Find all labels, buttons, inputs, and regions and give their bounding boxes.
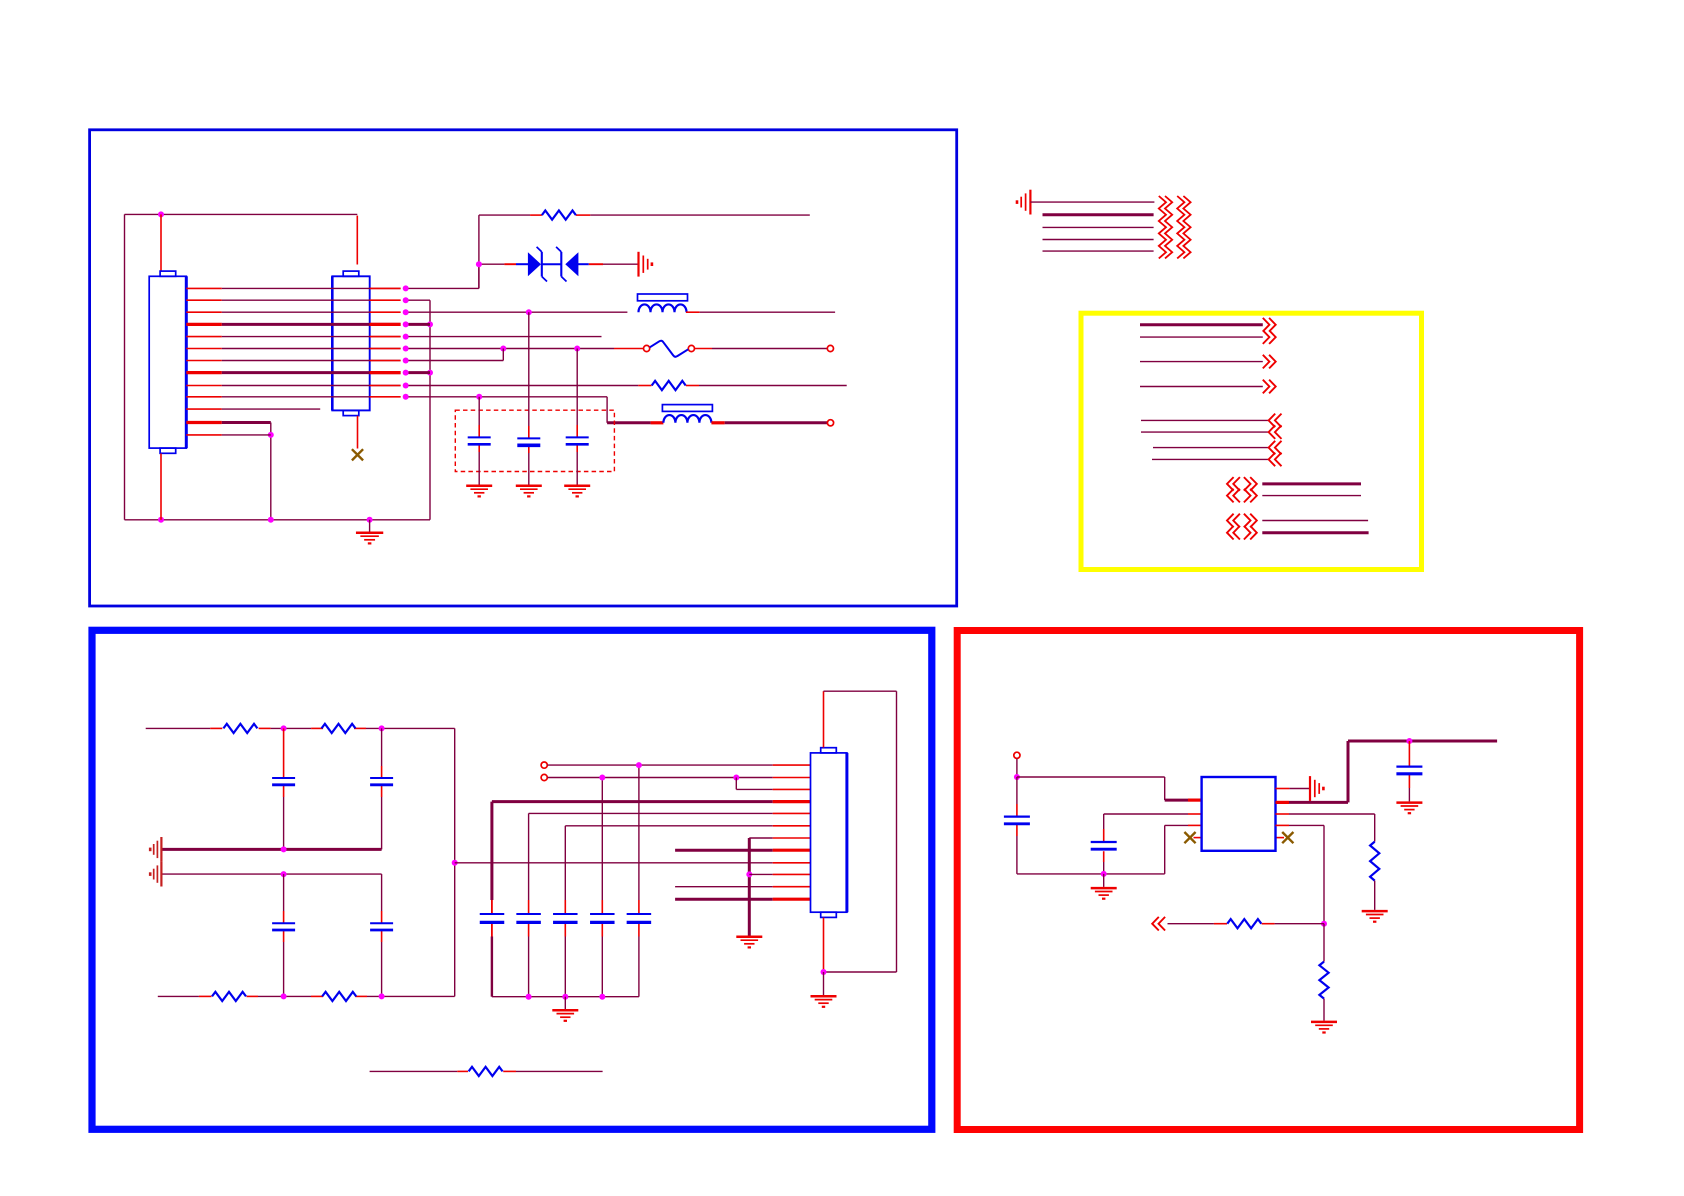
junction VOUT cap	[1406, 738, 1412, 744]
junction on top rail at connector J1	[158, 211, 164, 217]
ground at drop	[736, 937, 762, 948]
capacitor C9 lead	[528, 813, 530, 996]
wire row pin4 from J1	[186, 321, 408, 327]
resistor R8 (vertical)	[1370, 842, 1379, 881]
net D2	[1141, 425, 1282, 439]
wire VIN to U1	[1017, 777, 1202, 800]
wire row pin13 from J1	[186, 434, 222, 436]
ground R8	[1362, 881, 1388, 922]
capacitor C9	[516, 914, 541, 922]
capacitor C15 lead	[1408, 741, 1410, 801]
capacitor C3	[566, 437, 589, 444]
junction rail-J1pin	[158, 517, 164, 523]
junction pin2 branch	[733, 775, 739, 781]
wire J2 top pin to top rail	[356, 216, 358, 265]
capacitor C2 lead	[528, 312, 530, 484]
wire row10 to cap bank and bead FB2	[409, 397, 608, 423]
capacitor C10 lead	[564, 826, 566, 997]
resistor R1 row wire	[479, 215, 810, 288]
wire row12 thick to ground drop	[222, 423, 271, 520]
wire row11 open end	[222, 408, 320, 410]
wire row13 to drop	[222, 434, 271, 436]
capacitor C13	[1004, 817, 1030, 824]
junction bottom node2	[379, 993, 385, 999]
junction row13 on drop	[268, 432, 274, 438]
capacitor C12	[627, 914, 652, 922]
terminal circle bead row	[827, 420, 833, 426]
terminal circle row6	[827, 345, 833, 351]
wire after FB2	[711, 421, 827, 424]
net wire N3	[1043, 226, 1154, 228]
ground at C1	[466, 486, 492, 497]
bus rip chevrons (vertical)	[1159, 196, 1191, 258]
terminal circle VIN	[1014, 752, 1020, 758]
junction row10 cap C1 tap	[476, 394, 482, 400]
wire decoupling bus thick	[492, 800, 811, 803]
junction top node1	[281, 725, 287, 731]
sheet border box 2 (blue thick)	[92, 630, 932, 1129]
junction mid line2	[281, 871, 287, 877]
wire U1 fb pin	[1276, 825, 1325, 923]
wire row pin9 from J1	[186, 383, 408, 389]
wire mid to connector pin9	[455, 862, 811, 864]
junction top node2	[379, 725, 385, 731]
junction row6-row7 tie	[500, 346, 506, 352]
wire row pin8 from J1	[186, 370, 408, 376]
wire pin2 row	[541, 774, 810, 780]
connector J1 (14-pin)	[149, 271, 186, 453]
wire row6 after fuse	[695, 348, 827, 350]
ground GND rail	[356, 517, 383, 544]
ground (fading) mid bus	[150, 837, 161, 862]
junction TVS node	[476, 261, 482, 267]
resistor R10 (vertical)	[1319, 962, 1328, 999]
wire CN2 bottom pin	[823, 918, 825, 972]
sheet border box 3 (yellow, net connectors)	[1081, 313, 1422, 569]
capacitor C5 lead	[381, 728, 383, 849]
junction row6 cap drop	[574, 346, 580, 352]
junction row4 on ground drop	[427, 321, 433, 327]
junction VIN	[1014, 774, 1020, 780]
junction bank1	[526, 994, 532, 1000]
capacitor C8 lead thick	[490, 802, 493, 997]
wire row pin12 from J1	[186, 421, 222, 424]
capacitor C12 lead	[638, 765, 640, 997]
net B	[1140, 355, 1276, 369]
wire VIN down	[1016, 759, 1018, 777]
wire pin12 row thick	[675, 898, 810, 901]
connector CN2	[811, 748, 847, 918]
resistor R2	[652, 381, 686, 390]
junction row8 on ground drop	[427, 370, 433, 376]
wire pin11 row	[675, 886, 810, 888]
capacitor C3 lead	[576, 349, 578, 485]
wire input top	[146, 727, 455, 729]
wire C14 to U1	[1104, 813, 1202, 815]
junction C14 gnd	[1101, 871, 1107, 877]
wire row pin6 from J1	[186, 346, 408, 352]
net C	[1140, 380, 1276, 394]
wire pin3 branch	[736, 778, 810, 790]
wire right loop vertical	[454, 728, 456, 996]
net F2 (bus in)	[1227, 526, 1369, 540]
junction bottom node1	[281, 993, 287, 999]
wire row pin1 from J1	[186, 285, 408, 291]
connector J2 (pass-through header)	[332, 271, 369, 416]
wire pin1 row	[541, 762, 810, 768]
ground (fading) at TVS	[639, 252, 652, 277]
ground C14	[1091, 874, 1117, 899]
resistor R9	[1227, 919, 1261, 928]
capacitor C10	[553, 914, 578, 922]
resistor R6	[322, 992, 356, 1001]
net E2	[1227, 489, 1361, 503]
ground C15	[1396, 803, 1422, 814]
wire row pin5 from J1	[186, 334, 408, 340]
net E1 (bus in)	[1227, 477, 1361, 491]
wire row pin11 from J1	[186, 408, 222, 410]
wire C9 to pin5	[529, 812, 811, 814]
wire row pin2 from J1	[186, 297, 408, 303]
net D3	[1153, 441, 1282, 455]
wire CN2 top loop	[824, 691, 897, 972]
wire pin8 row thick	[675, 849, 810, 852]
wire row2 down to ground rail	[409, 300, 431, 520]
wire C10 to pin6	[565, 825, 810, 827]
wire gnd drop thick	[748, 838, 751, 936]
no-connect X left	[1184, 832, 1201, 843]
wire U1 adj out	[1276, 814, 1375, 842]
wire U1 gnd pin	[1276, 788, 1310, 790]
capacitor C5	[370, 778, 393, 785]
wire J1 pin1 to top rail	[160, 214, 162, 270]
wire bottom row	[158, 995, 455, 997]
wire row pin3 from J1	[186, 309, 408, 315]
sheet border box 1 (interface schematic)	[90, 130, 957, 606]
diode D1 (zener, right)	[528, 247, 547, 282]
capacitor C4	[272, 778, 295, 785]
wire R7 row	[370, 1070, 603, 1072]
ferrite bead FB1	[638, 294, 688, 312]
junction mid bus	[281, 846, 287, 852]
wire row1 net to TVS node	[409, 264, 479, 288]
ground cap bank	[552, 997, 578, 1021]
junction mid tap	[452, 860, 458, 866]
junction row3 cap drop	[526, 309, 532, 315]
capacitor C15	[1396, 767, 1422, 774]
wire mid bus thick	[162, 848, 382, 851]
capacitor C4 lead	[283, 728, 285, 849]
wire row6 to fuse F1	[409, 348, 644, 350]
capacitor C1	[468, 437, 491, 444]
diode D2 (zener, left)	[556, 247, 578, 282]
ground at C2	[516, 486, 542, 497]
wire row8 thick stub end	[409, 371, 431, 374]
wire mid line2	[162, 873, 382, 875]
wire fb down	[1323, 924, 1325, 962]
wire cap bank bottom	[492, 996, 639, 998]
capacitor C14	[1091, 842, 1117, 849]
no-connect X right	[1276, 832, 1294, 843]
junction pin10 tap	[746, 871, 752, 877]
wire row9 to resistor R2	[409, 385, 652, 387]
no-connect X at J2	[352, 449, 363, 460]
net wire N2 (bus)	[1043, 213, 1154, 216]
sheet border box 4 (red thick, regulator)	[957, 631, 1579, 1130]
capacitor C6	[272, 923, 295, 930]
junction rail-row12	[268, 517, 274, 523]
wire row pin7 from J1	[186, 358, 408, 364]
capacitor C14 lead	[1103, 814, 1105, 874]
capacitor C11 lead	[601, 778, 603, 997]
junction pin2-C11	[599, 775, 605, 781]
wire to bead FB2	[607, 421, 663, 424]
resistor R4	[322, 724, 356, 733]
wire VCC rail top (node A)	[125, 214, 358, 519]
dashed box (EMI filter caps)	[455, 410, 614, 471]
ground rail bottom	[125, 519, 431, 521]
ferrite bead FB2	[662, 405, 712, 423]
wire row pin10 from J1	[186, 394, 408, 400]
junction pin1-C12	[636, 762, 642, 768]
junction fb node	[1321, 921, 1327, 927]
wire row3 to bead FB1	[409, 311, 628, 313]
wire pin10 row	[749, 873, 810, 875]
wire TVS row	[479, 263, 638, 265]
net D1	[1141, 414, 1282, 428]
wire row3 after FB1	[686, 311, 835, 313]
capacitor C1 lead	[478, 397, 480, 485]
resistor R5	[212, 992, 246, 1001]
capacitor C7 lead	[381, 874, 383, 996]
fuse F1	[644, 341, 695, 357]
net A2	[1140, 330, 1276, 344]
wire J2 bottom pin	[357, 416, 359, 449]
net wire N1	[1030, 201, 1154, 203]
wire VOUT thick	[1276, 741, 1498, 802]
net D4	[1152, 453, 1282, 467]
junction CN2 gnd	[821, 969, 827, 975]
wire J1 bottom pin down	[160, 454, 162, 520]
net A1 (bus out)	[1140, 318, 1276, 332]
capacitor C6 lead	[283, 874, 285, 996]
resistor R3	[223, 724, 257, 733]
ground CN2	[811, 972, 837, 1007]
capacitor C7	[370, 923, 393, 930]
junction bank3	[599, 994, 605, 1000]
ground (fading) line2	[150, 862, 161, 887]
junction bank2	[562, 994, 568, 1000]
capacitor C11	[590, 914, 615, 922]
capacitor C13 lead	[1016, 777, 1018, 874]
ground at C3	[564, 486, 590, 497]
net wire N5	[1043, 250, 1154, 252]
wire pin7 row	[749, 837, 810, 839]
capacitor C8	[480, 914, 505, 922]
wire bottom return	[1017, 825, 1202, 874]
ground (fading) net group	[1017, 190, 1030, 215]
net F1	[1227, 514, 1368, 528]
net wire N4	[1043, 239, 1154, 241]
ground (fading) U1	[1310, 776, 1323, 801]
wire row4 thick stub end	[409, 323, 431, 326]
wire row9 after R2	[686, 385, 847, 387]
resistor R1	[542, 211, 576, 220]
wire row5 open end	[409, 336, 602, 338]
resistor R7	[469, 1067, 503, 1076]
net chevron fb	[1152, 917, 1165, 931]
wire fb to R9	[1168, 923, 1325, 925]
regulator U1	[1202, 777, 1276, 851]
wire row7 up to row6	[409, 349, 504, 361]
ground R10	[1311, 999, 1337, 1033]
capacitor C2	[517, 438, 540, 445]
